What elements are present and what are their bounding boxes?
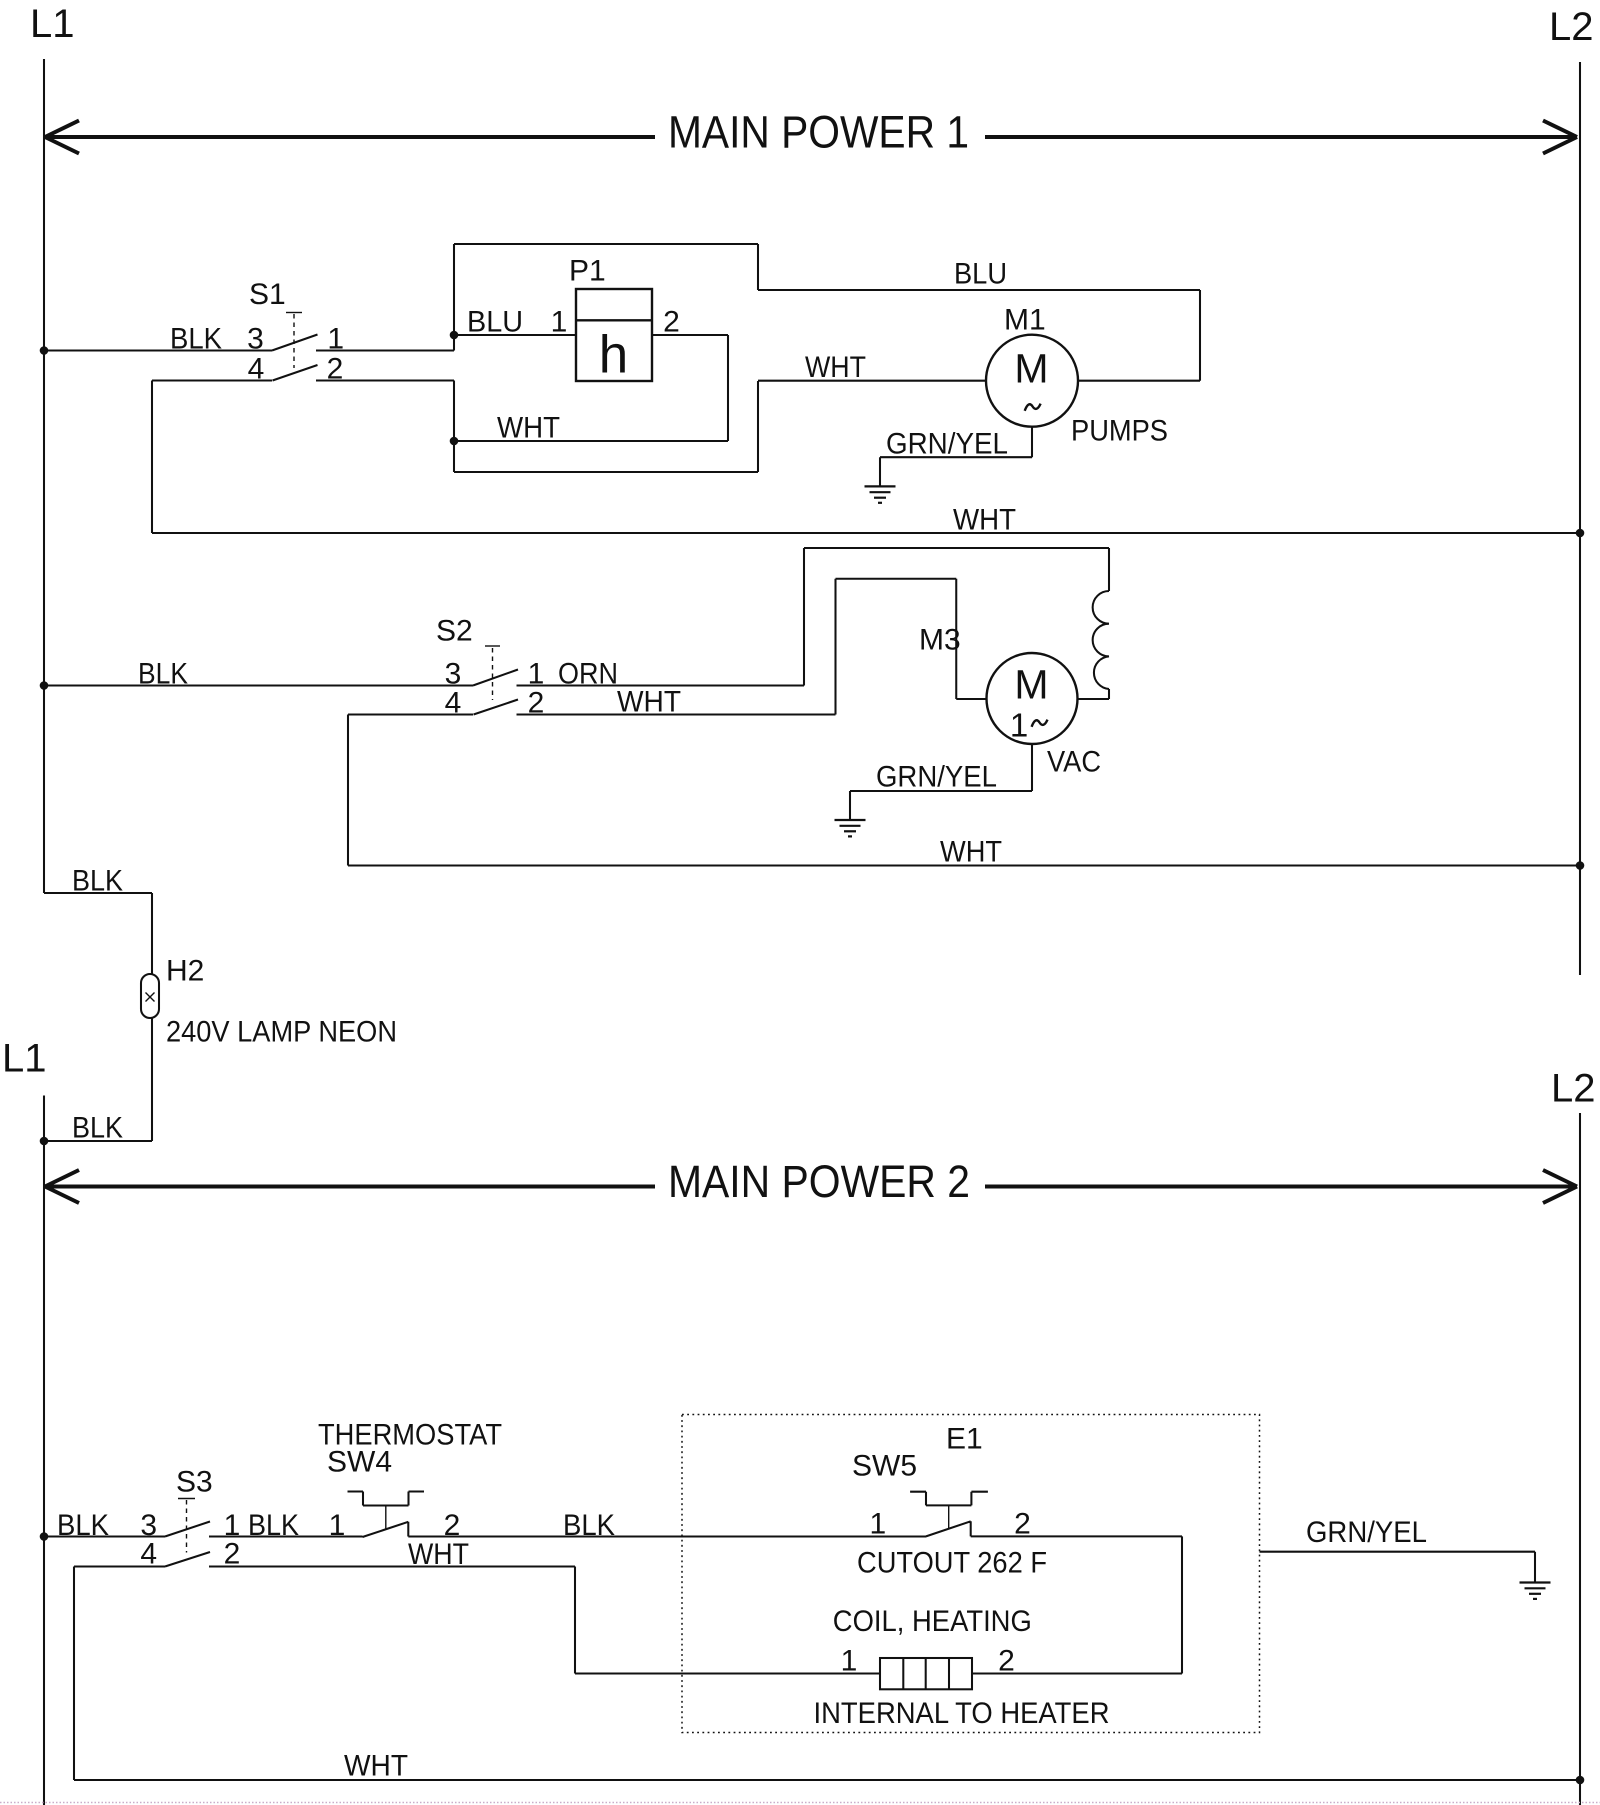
svg-text:1: 1 [327, 323, 344, 356]
svg-text:M: M [1014, 662, 1048, 708]
svg-text:ORN: ORN [558, 658, 618, 691]
svg-text:3: 3 [247, 323, 264, 356]
svg-text:WHT: WHT [940, 836, 1002, 869]
svg-text:BLU: BLU [467, 306, 523, 339]
svg-text:VAC: VAC [1047, 746, 1101, 779]
svg-text:4: 4 [445, 687, 462, 720]
svg-text:1: 1 [841, 1645, 858, 1678]
svg-text:2: 2 [528, 687, 545, 720]
svg-text:BLK: BLK [57, 1509, 109, 1542]
svg-text:GRN/YEL: GRN/YEL [1306, 1516, 1427, 1549]
svg-text:L2: L2 [1551, 1067, 1596, 1111]
svg-text:L2: L2 [1549, 5, 1594, 49]
svg-text:WHT: WHT [408, 1538, 469, 1571]
svg-text:WHT: WHT [344, 1750, 408, 1783]
svg-text:MAIN POWER 1: MAIN POWER 1 [668, 107, 969, 158]
svg-text:M1: M1 [1004, 304, 1046, 337]
svg-text:1: 1 [551, 306, 568, 339]
svg-text:PUMPS: PUMPS [1071, 415, 1168, 448]
svg-text:BLU: BLU [954, 258, 1007, 291]
svg-text:WHT: WHT [497, 412, 560, 445]
svg-text:SW5: SW5 [852, 1450, 917, 1483]
svg-text:2: 2 [663, 306, 680, 339]
svg-text:240V LAMP NEON: 240V LAMP NEON [166, 1016, 397, 1049]
svg-text:S2: S2 [436, 615, 473, 648]
svg-text:MAIN POWER 2: MAIN POWER 2 [668, 1156, 970, 1207]
svg-text:BLK: BLK [72, 865, 123, 898]
svg-text:WHT: WHT [617, 686, 681, 719]
svg-text:S1: S1 [249, 278, 286, 311]
svg-text:SW4: SW4 [327, 1446, 392, 1479]
svg-text:GRN/YEL: GRN/YEL [876, 761, 997, 794]
svg-text:COIL, HEATING: COIL, HEATING [833, 1605, 1032, 1638]
svg-text:BLK: BLK [248, 1509, 299, 1542]
svg-text:GRN/YEL: GRN/YEL [886, 428, 1008, 461]
svg-text:E1: E1 [946, 1423, 983, 1456]
svg-text:H2: H2 [166, 955, 204, 988]
svg-text:BLK: BLK [138, 658, 188, 691]
svg-text:P1: P1 [569, 255, 606, 288]
svg-text:4: 4 [248, 353, 265, 386]
svg-text:2: 2 [1014, 1508, 1031, 1541]
svg-text:2: 2 [327, 353, 344, 386]
svg-text:2: 2 [998, 1645, 1015, 1678]
svg-text:L1: L1 [30, 2, 75, 46]
svg-text:1: 1 [869, 1508, 886, 1541]
svg-text:2: 2 [224, 1538, 241, 1571]
svg-text:M3: M3 [919, 624, 961, 657]
svg-text:BLK: BLK [563, 1509, 615, 1542]
svg-text:4: 4 [140, 1538, 157, 1571]
svg-text:1: 1 [1010, 707, 1028, 744]
svg-text:INTERNAL TO HEATER: INTERNAL TO HEATER [814, 1697, 1110, 1730]
svg-text:BLK: BLK [72, 1112, 123, 1145]
svg-text:M: M [1014, 345, 1048, 391]
svg-text:1: 1 [329, 1509, 346, 1542]
svg-text:WHT: WHT [805, 351, 866, 384]
svg-text:BLK: BLK [170, 323, 222, 356]
svg-text:S3: S3 [176, 1466, 213, 1499]
svg-text:h: h [599, 326, 628, 385]
svg-text:L1: L1 [2, 1037, 47, 1081]
svg-text:WHT: WHT [953, 504, 1016, 537]
svg-text:CUTOUT 262 F: CUTOUT 262 F [857, 1547, 1047, 1580]
